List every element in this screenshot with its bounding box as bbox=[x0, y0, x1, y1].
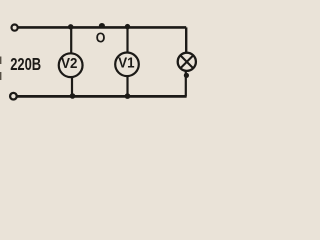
svg-text:220В: 220В bbox=[10, 55, 41, 75]
lamp EL (circle with X) bbox=[178, 53, 196, 71]
voltmeter V1 bbox=[115, 53, 139, 77]
wire V1 branch bottom bbox=[126, 76, 128, 96]
junction dot (V2 top) bbox=[68, 24, 73, 29]
wire V1 branch top bbox=[126, 27, 128, 52]
wire V2 branch top bbox=[70, 27, 72, 53]
node O dot bbox=[99, 23, 105, 28]
junction dot (V1 top) bbox=[125, 24, 130, 29]
terminal X2 (bottom left) bbox=[10, 93, 17, 100]
svg-text:V2: V2 bbox=[61, 54, 77, 71]
scan artifact smudge lower left edge bbox=[0, 72, 1, 80]
svg-text:O: O bbox=[96, 29, 106, 45]
wire top bus bbox=[18, 26, 186, 29]
terminal X1 (top left) bbox=[12, 25, 18, 31]
svg-text:V1: V1 bbox=[118, 54, 134, 71]
scan artifact smudge upper left edge bbox=[0, 57, 1, 65]
wire V2 branch bottom bbox=[71, 77, 73, 96]
paper background bbox=[0, 0, 209, 109]
junction dot (lamp bottom) bbox=[184, 73, 189, 78]
wire bottom bus bbox=[17, 95, 187, 98]
wire lamp to bottom bus bbox=[185, 71, 187, 96]
junction dot (V1 bottom) bbox=[125, 93, 131, 99]
wire right branch (top corner down to lamp) bbox=[185, 27, 187, 52]
voltmeter V2 bbox=[59, 53, 83, 77]
junction dot (V2 bottom) bbox=[70, 93, 76, 99]
